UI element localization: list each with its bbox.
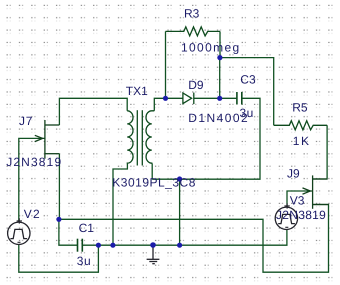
svg-text:C1: C1 (79, 221, 95, 235)
svg-text:J2N3819: J2N3819 (276, 208, 326, 222)
svg-text:3u: 3u (77, 254, 91, 268)
svg-text:R3: R3 (184, 6, 200, 20)
svg-text:D9: D9 (188, 78, 204, 92)
svg-text:1000meg: 1000meg (181, 41, 241, 55)
svg-text:J7: J7 (19, 114, 33, 128)
svg-text:V2: V2 (24, 207, 41, 221)
svg-text:R5: R5 (292, 101, 308, 115)
svg-text:3u: 3u (240, 106, 254, 120)
svg-text:V3: V3 (290, 193, 305, 207)
svg-text:J2N3819: J2N3819 (6, 155, 62, 169)
svg-text:1K: 1K (293, 134, 311, 148)
svg-text:J9: J9 (287, 167, 300, 181)
svg-text:TX1: TX1 (126, 84, 148, 98)
svg-text:C3: C3 (240, 73, 256, 87)
svg-text:K3019PL_3C8: K3019PL_3C8 (112, 176, 196, 190)
